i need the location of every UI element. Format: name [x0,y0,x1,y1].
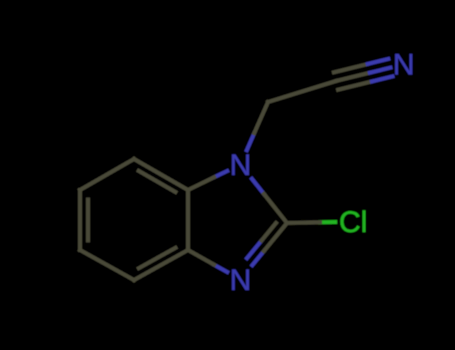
bond C6-C5 (aromatic) [78,190,82,250]
triple bond C#N lower line [338,76,392,89]
bond N1-C7a [188,171,227,190]
svg-text:N: N [393,49,415,82]
bond C5-C4 [80,250,134,280]
inner double line C6=C5 [86,200,90,241]
bond N3=C2 double, main line [252,223,287,265]
bond C2-Cl [287,222,335,223]
inner double line C7a=C7 [139,171,176,192]
bond N3-C3a [188,250,227,272]
bond C7a-C7 (aromatic) [134,159,188,190]
triple bond C#N centre line [336,68,390,81]
bond N1-C2 [252,179,287,223]
atom label nitrile N [393,49,415,82]
inner double line C4=C3a [139,248,176,268]
svg-text:N: N [230,264,252,297]
bond C7-C6 [80,159,134,190]
triple bond C#N upper line [334,59,388,72]
bond N1-CH2 [247,102,268,150]
svg-text:Cl: Cl [339,206,367,239]
bond CH2-C(nitrile) [268,81,336,102]
bond C4-C3a (aromatic) [134,250,188,280]
bond C3a-C7a (ring fusion) [186,190,190,250]
bond N3=C2 double, inner line [247,223,276,258]
svg-text:N: N [230,149,252,182]
atom label Cl [339,206,367,239]
atom label N3 [230,264,252,297]
atom label N1 [230,149,252,182]
